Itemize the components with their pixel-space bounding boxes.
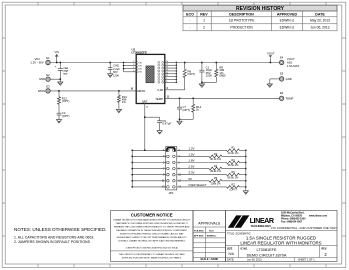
resistor R7 xyxy=(227,182,240,191)
svg-text:www.linear.com: www.linear.com xyxy=(309,215,327,218)
svg-text:8: 8 xyxy=(166,81,167,83)
svg-text:24.3k 1%: 24.3k 1% xyxy=(228,151,240,155)
svg-text:SHEET 1 OF 1: SHEET 1 OF 1 xyxy=(298,259,315,262)
junction IN bus xyxy=(123,62,124,63)
wire net 3.3V xyxy=(177,171,247,176)
svg-text:1206: 1206 xyxy=(113,74,119,78)
svg-text:16: 16 xyxy=(166,61,168,63)
revision history table xyxy=(183,5,337,31)
svg-text:3.3V: 3.3V xyxy=(188,171,194,175)
svg-text:SCALE = NONE: SCALE = NONE xyxy=(200,258,218,261)
op IC U1 LT3081EFE xyxy=(124,48,165,104)
approvals block xyxy=(193,211,226,262)
svg-text:TEMP: TEMP xyxy=(286,96,294,100)
svg-text:(OPT): (OPT) xyxy=(182,108,190,112)
svg-text:R3: R3 xyxy=(231,158,235,162)
svg-text:LINEAR TECHNOLOGY HAS MADE A B: LINEAR TECHNOLOGY HAS MADE A BEST EFFORT… xyxy=(113,218,191,221)
svg-text:49.9k 1%: 49.9k 1% xyxy=(210,169,222,173)
svg-text:PRODUCTION: PRODUCTION xyxy=(230,25,253,29)
junction R14 xyxy=(192,98,194,100)
ground below C1 xyxy=(199,84,204,87)
svg-text:(OPT): (OPT) xyxy=(229,188,236,192)
ground below C7 xyxy=(179,119,181,121)
wire net 2.5V xyxy=(177,165,247,170)
wire net USER SELECT xyxy=(177,183,247,188)
resistor R5 xyxy=(227,170,240,179)
svg-text:22µF: 22µF xyxy=(63,71,69,73)
svg-text:14: 14 xyxy=(166,67,168,69)
resistor R1 xyxy=(227,146,240,155)
svg-text:NOTES: UNLESS OTHERWISE SPECIF: NOTES: UNLESS OTHERWISE SPECIFIED. xyxy=(14,227,107,232)
svg-text:1. ALL CAPACITORS AND RESISTO: 1. ALL CAPACITORS AND RESISTORS ARE 0603… xyxy=(14,235,94,239)
wire SET xyxy=(144,104,146,151)
junction R13 xyxy=(118,90,120,92)
capacitor C2 xyxy=(57,104,70,119)
svg-text:ECO: ECO xyxy=(209,231,214,233)
resistor R3 xyxy=(227,158,240,167)
pin circle IMON xyxy=(137,90,139,92)
ground below right bus xyxy=(243,191,248,194)
resistor R8 xyxy=(183,63,195,90)
resistor R9 xyxy=(202,63,226,83)
svg-text:REV: REV xyxy=(200,13,208,17)
svg-text:1206: 1206 xyxy=(206,74,213,78)
resistor R6 xyxy=(209,176,222,185)
terminal E3 IMON xyxy=(46,85,50,94)
junction CIN2 xyxy=(109,62,111,64)
junction C1/R9 bottom xyxy=(201,82,203,84)
svg-text:CONTACT LINEAR TECHNOLOGY APPL: CONTACT LINEAR TECHNOLOGY APPLICATIONS E… xyxy=(118,240,186,243)
svg-text:LINEAR REGULATOR WITH MONITORS: LINEAR REGULATOR WITH MONITORS xyxy=(240,240,321,245)
svg-text:SUBSTITUTION AND PRINTED CIRCU: SUBSTITUTION AND PRINTED CIRCUIT BOARD L… xyxy=(120,233,184,236)
label VIN input xyxy=(30,57,43,65)
svg-text:R4: R4 xyxy=(214,164,218,168)
svg-text:REVISION HISTORY: REVISION HISTORY xyxy=(236,6,285,12)
junction C7 bottom xyxy=(179,119,181,121)
svg-text:R5: R5 xyxy=(231,170,235,174)
title block xyxy=(226,211,338,262)
junction OUT x184.7 xyxy=(184,62,186,64)
junction GND/CIN1 xyxy=(60,78,62,80)
svg-text:2.5V: 2.5V xyxy=(188,165,194,169)
svg-text:JP1: JP1 xyxy=(168,191,174,195)
svg-text:E1: E1 xyxy=(46,56,50,60)
ground below R13 xyxy=(116,109,121,112)
svg-text:E4: E4 xyxy=(280,55,284,59)
svg-text:Jun 06, 2013: Jun 06, 2013 xyxy=(310,25,329,29)
svg-text:+: + xyxy=(55,65,57,69)
wire GND xyxy=(50,78,60,80)
wire net 1.8V xyxy=(177,159,247,164)
capacitor C7 xyxy=(177,98,190,119)
svg-text:3: 3 xyxy=(133,64,134,66)
junction OUT x201.9 xyxy=(201,62,203,64)
svg-text:CIN2: CIN2 xyxy=(113,63,119,67)
svg-text:CUSTOMER NOTICE: CUSTOMER NOTICE xyxy=(131,212,173,217)
wire SET bus to JP1 xyxy=(132,150,167,188)
svg-text:E3: E3 xyxy=(46,85,50,89)
svg-text:REMAINS THE CUSTOMER'S RESPONS: REMAINS THE CUSTOMER'S RESPONSIBILITY TO… xyxy=(114,226,190,229)
svg-text:IMON: IMON xyxy=(138,89,145,93)
wire VIN line xyxy=(50,62,123,64)
svg-text:LTC CONFIDENTIAL - FOR CUSTOME: LTC CONFIDENTIAL - FOR CUSTOMER USE ONLY xyxy=(271,226,337,230)
svg-text:REV.: REV. xyxy=(322,247,328,250)
svg-text:R2: R2 xyxy=(214,152,218,156)
svg-text:TECHNOLOGY: TECHNOLOGY xyxy=(251,224,272,228)
svg-text:100k 1%: 100k 1% xyxy=(210,181,221,185)
svg-text:LT3081EFE: LT3081EFE xyxy=(257,248,277,252)
wire IMON line xyxy=(50,90,136,92)
capacitor C1 xyxy=(199,63,212,83)
resistor R13 xyxy=(117,91,127,109)
jumper shunt on JP1 row 1 xyxy=(167,148,175,152)
ground below CIN2 xyxy=(108,74,113,77)
svg-text:EDWIN LI: EDWIN LI xyxy=(280,25,295,29)
wire OUT pin stubs and bus xyxy=(165,61,177,83)
svg-text:May 20, 2013: May 20, 2013 xyxy=(310,19,330,23)
svg-text:66.5k 1%: 66.5k 1% xyxy=(228,175,240,179)
terminal E4 VOUT xyxy=(279,55,283,64)
resistor R4 xyxy=(209,164,222,173)
svg-text:E5: E5 xyxy=(280,72,284,76)
svg-text:GND: GND xyxy=(286,77,292,81)
svg-text:DESCRIPTION: DESCRIPTION xyxy=(229,13,254,17)
resistor R2 xyxy=(209,152,222,161)
svg-text:CIN1: CIN1 xyxy=(63,68,69,70)
terminal E6 TEMP xyxy=(279,91,283,100)
junction R12 xyxy=(58,90,60,92)
svg-text:9: 9 xyxy=(166,78,167,80)
wire TEMP line xyxy=(165,97,280,99)
svg-text:(OPT): (OPT) xyxy=(62,99,70,103)
svg-text:IMON: IMON xyxy=(38,89,45,93)
svg-text:SIGNIFICANTLY AFFECT CIRCUIT P: SIGNIFICANTLY AFFECT CIRCUIT PERFORMANCE… xyxy=(117,236,188,239)
svg-text:Fax: (408)434-0507: Fax: (408)434-0507 xyxy=(281,221,303,224)
svg-text:SIZE: SIZE xyxy=(227,247,233,250)
capacitor CIN1 xyxy=(55,63,70,80)
svg-text:1.5V: 1.5V xyxy=(188,152,194,156)
svg-text:-: - xyxy=(189,19,190,23)
svg-text:DATE:: DATE: xyxy=(227,259,234,262)
wire ILIM xyxy=(165,89,185,91)
resistor R14 xyxy=(192,98,202,119)
svg-text:DEMO CIRCUIT 1870A: DEMO CIRCUIT 1870A xyxy=(247,254,287,258)
svg-text:5: 5 xyxy=(133,70,134,72)
svg-text:IC NO.: IC NO. xyxy=(241,247,249,250)
svg-text:EDWIN LI: EDWIN LI xyxy=(207,236,217,238)
svg-text:2: 2 xyxy=(203,25,205,29)
svg-text:EDWIN LI: EDWIN LI xyxy=(280,19,295,23)
svg-text:2: 2 xyxy=(133,61,134,63)
wire OUT line xyxy=(176,62,279,64)
label VOUT ADJ 1.5A MAX xyxy=(287,57,300,68)
ground E5 xyxy=(267,84,272,87)
svg-text:VOUT: VOUT xyxy=(267,51,275,55)
svg-text:TEMP: TEMP xyxy=(155,97,163,101)
ground below C6 xyxy=(157,131,162,134)
svg-text:1.2V: 1.2V xyxy=(188,146,194,150)
svg-text:USER SELECT: USER SELECT xyxy=(188,183,206,187)
junction CIN1 xyxy=(60,62,62,64)
node VOUT flag xyxy=(267,51,275,62)
svg-text:-: - xyxy=(189,25,190,29)
svg-text:(OPT): (OPT) xyxy=(188,72,196,76)
capacitor CIN2 xyxy=(108,63,120,78)
pin circle SET xyxy=(144,101,146,103)
svg-text:APPROVALS: APPROVALS xyxy=(198,221,221,225)
terminal E5 GND xyxy=(279,72,283,81)
wire net 5V xyxy=(177,177,247,182)
svg-text:DATE: DATE xyxy=(315,13,325,17)
terminal E2 GND xyxy=(46,73,50,82)
svg-text:2.2µF: 2.2µF xyxy=(113,67,120,71)
svg-text:ECO: ECO xyxy=(186,13,194,17)
svg-text:0805: 0805 xyxy=(219,74,226,78)
svg-text:11: 11 xyxy=(166,75,168,77)
svg-text:50V: 50V xyxy=(113,70,118,74)
svg-text:APP ENG: APP ENG xyxy=(194,235,204,238)
svg-text:1.5A MAX: 1.5A MAX xyxy=(287,64,300,68)
svg-text:R7: R7 xyxy=(231,182,235,186)
wire net 1.2V xyxy=(177,146,247,151)
svg-text:5V: 5V xyxy=(188,177,192,181)
svg-text:RELIABLE OPERATION IN THE ACTU: RELIABLE OPERATION IN THE ACTUAL APPLICA… xyxy=(116,229,187,232)
junction OUT x216.3 xyxy=(216,62,218,64)
svg-text:E2: E2 xyxy=(46,73,50,77)
svg-text:4: 4 xyxy=(133,67,134,69)
customer notice box xyxy=(111,211,194,262)
notes text xyxy=(14,227,107,244)
svg-text:36.5k 1%: 36.5k 1% xyxy=(228,163,240,167)
svg-text:(OPT): (OPT) xyxy=(62,114,70,118)
svg-text:15: 15 xyxy=(166,64,168,66)
svg-text:VIN: VIN xyxy=(55,50,59,54)
connector JP1 xyxy=(162,147,182,195)
terminal E1 VIN xyxy=(46,56,50,65)
svg-text:13: 13 xyxy=(166,69,168,71)
svg-text:1: 1 xyxy=(203,19,205,23)
svg-text:12: 12 xyxy=(166,72,168,74)
svg-text:THIS CIRCUIT IS PROPRIETARY TO: THIS CIRCUIT IS PROPRIETARY TO LINEAR TE… xyxy=(119,253,186,256)
svg-text:SUPPLIED FOR USE WITH LINEAR T: SUPPLIED FOR USE WITH LINEAR TECHNOLOGY … xyxy=(122,256,182,259)
svg-text:ILIM: ILIM xyxy=(158,88,164,92)
svg-text:Jun 06, 2013: Jun 06, 2013 xyxy=(247,259,262,262)
svg-text:1st PROTOTYPE: 1st PROTOTYPE xyxy=(229,19,255,23)
wire net 1.5V xyxy=(177,152,247,157)
svg-text:GND: GND xyxy=(39,77,45,81)
node VIN flag xyxy=(55,50,59,63)
svg-text:E6: E6 xyxy=(280,91,284,95)
resistor R12 xyxy=(58,91,70,104)
junction OUT x270.4 xyxy=(270,62,272,64)
svg-text:PCB ENG: PCB ENG xyxy=(194,231,204,233)
ground below E2 xyxy=(58,79,63,85)
wire C7/R14 bottom xyxy=(180,118,194,120)
junction VIN flag xyxy=(56,62,58,64)
svg-text:1.8V: 1.8V xyxy=(188,159,194,163)
wire E5 to ground xyxy=(270,78,280,80)
svg-text:0.47µF: 0.47µF xyxy=(162,122,171,126)
capacitor C6 xyxy=(145,117,172,130)
svg-text:50V: 50V xyxy=(63,73,67,75)
svg-text:R6: R6 xyxy=(214,176,218,180)
svg-text:APPROVED: APPROVED xyxy=(277,13,298,17)
svg-text:R1: R1 xyxy=(231,146,235,150)
ground below C2 xyxy=(56,120,61,123)
svg-text:N/A: N/A xyxy=(229,252,235,256)
junction C7 xyxy=(179,98,181,100)
svg-text:30.1k 1%: 30.1k 1% xyxy=(210,157,222,161)
svg-text:1.2V - 36V: 1.2V - 36V xyxy=(30,61,43,65)
svg-text:1%: 1% xyxy=(122,100,127,104)
svg-text:2. JUMPERS SHOWN IN DEFAULT P: 2. JUMPERS SHOWN IN DEFAULT POSITIONS xyxy=(14,240,91,244)
svg-text:THAT MEETS CUSTOMER-SUPPLIED S: THAT MEETS CUSTOMER-SUPPLIED SPECIFICATI… xyxy=(115,222,188,225)
junction SET/C6 xyxy=(144,116,146,118)
wire right bus xyxy=(245,150,247,191)
